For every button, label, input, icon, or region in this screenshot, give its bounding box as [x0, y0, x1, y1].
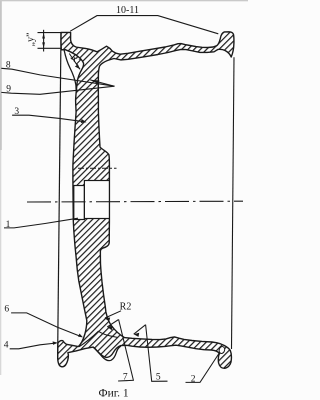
horizontal center line (dash-dot) — [27, 200, 243, 203]
label R2 leader — [105, 311, 121, 318]
svg-text:6: 6 — [4, 305, 9, 315]
right vertical edge line — [232, 57, 235, 349]
label 7 leader — [118, 320, 133, 382]
label 4 leader — [10, 343, 57, 349]
svg-text:Фиг. 1: Фиг. 1 — [99, 388, 129, 400]
label 8 leader — [1, 68, 114, 86]
svg-text:9: 9 — [6, 85, 11, 95]
svg-text:R2: R2 — [120, 302, 132, 313]
dimension y arrows — [42, 33, 45, 39]
label 5 leader — [146, 325, 168, 382]
dimension y: extension lines — [38, 30, 62, 52]
label 2 leader — [186, 353, 220, 383]
svg-text:10-11: 10-11 — [116, 5, 139, 16]
hub bore hole (white) — [74, 181, 110, 220]
svg-text:5: 5 — [156, 372, 161, 382]
label 3 leader — [12, 115, 85, 122]
label 9 leader — [1, 86, 114, 94]
svg-text:1: 1 — [6, 220, 11, 230]
label 6 leader — [11, 313, 81, 337]
svg-text:3: 3 — [14, 107, 19, 117]
leader 8-9 arrow — [90, 80, 114, 86]
svg-text:„у”: „у” — [26, 33, 37, 47]
svg-text:7: 7 — [123, 372, 128, 382]
lower right flange curl pocket — [218, 346, 225, 354]
label 10-11 leaders — [70, 16, 218, 34]
lower disc foot silhouette (vent hole lower lip) — [93, 346, 121, 361]
upper disc vent hole silhouette (lower lip) — [64, 51, 76, 90]
svg-text:8: 8 — [6, 60, 11, 70]
scan edge top — [0, 0, 248, 1]
bolt hole center line — [78, 167, 117, 169]
wheel section (rim top + disc + rim bottom), hatched — [58, 32, 234, 369]
seam line under lower disc foot — [79, 331, 118, 347]
left vertical edge line — [58, 33, 61, 359]
label R1 leader — [69, 54, 80, 70]
scan edge left — [0, 0, 2, 150]
svg-text:2: 2 — [191, 374, 196, 384]
label 1 leader — [4, 218, 78, 228]
svg-text:4: 4 — [4, 341, 9, 351]
